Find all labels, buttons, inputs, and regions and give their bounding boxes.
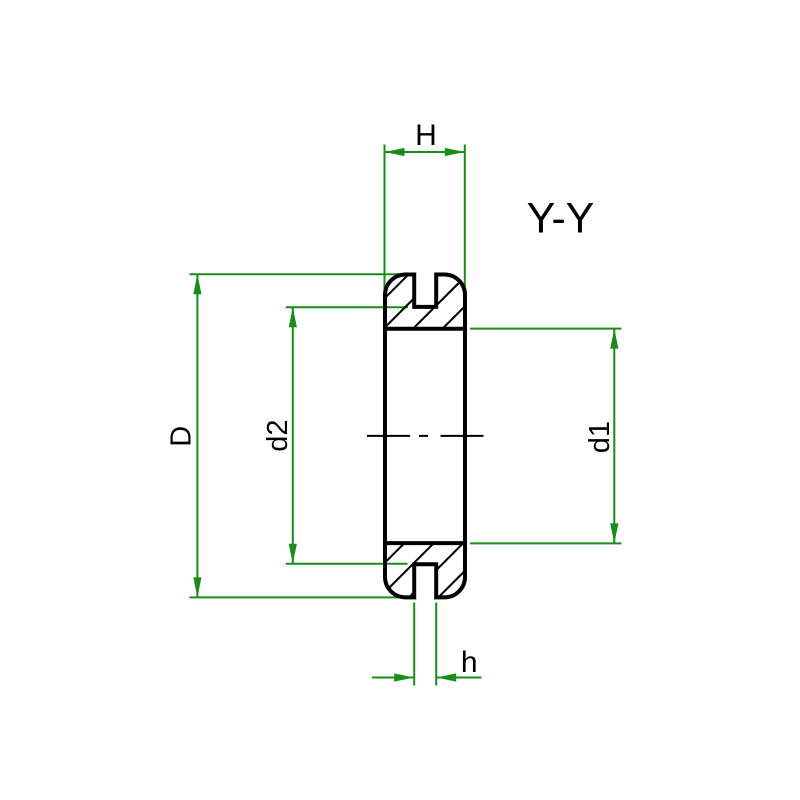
dimension h extension line right [435, 603, 437, 686]
dimension d1 arrowhead bottom [610, 523, 618, 543]
dimension d1 line [613, 329, 615, 544]
hatching top flange [24, 250, 580, 630]
dimension h extension line left [413, 603, 415, 686]
dimension H extension line left [384, 145, 386, 292]
svg-text:Y-Y: Y-Y [527, 194, 595, 242]
svg-text:d1: d1 [584, 421, 616, 453]
grommet tube wall left [383, 329, 387, 543]
dimension H line [385, 151, 465, 153]
svg-text:h: h [461, 646, 478, 679]
dimension d2 extension line bottom [286, 563, 408, 565]
grommet tube wall right [463, 329, 467, 543]
grommet top flange outline [385, 275, 465, 329]
dimension D extension line bottom [190, 596, 407, 598]
svg-text:D: D [166, 426, 198, 447]
dimension d1 extension line bottom [470, 542, 622, 544]
center line [367, 435, 484, 437]
dimension H extension line right [464, 145, 466, 294]
grommet bottom flange outline [385, 543, 465, 597]
dimension H arrowhead right [445, 148, 465, 156]
dimension H arrowhead left [385, 148, 405, 156]
dimension d2 arrowhead bottom [289, 544, 297, 564]
dimension d2 arrowhead top [289, 307, 297, 327]
dimension d2 line [292, 307, 294, 564]
dimension D extension line top [190, 273, 407, 275]
dimension d1 extension line top [470, 328, 622, 330]
dimension D line [196, 274, 198, 597]
dimension h arrowhead left [394, 673, 414, 681]
dimension h arrowhead right [436, 673, 456, 681]
dimension h line right [436, 677, 481, 679]
dimension d1 arrowhead top [610, 329, 618, 349]
dimension d2 extension line top [286, 306, 408, 308]
hatching bottom flange [259, 250, 800, 630]
dimension D arrowhead bottom [193, 577, 201, 597]
dimension h line left [372, 677, 414, 679]
svg-text:H: H [415, 119, 437, 152]
svg-text:d2: d2 [262, 419, 294, 451]
dimension D arrowhead top [193, 274, 201, 294]
